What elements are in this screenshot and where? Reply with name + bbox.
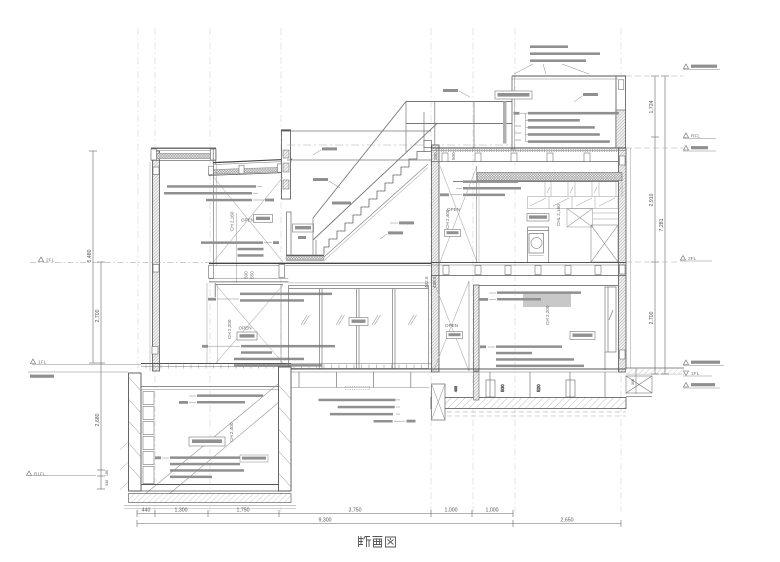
svg-text:438.5: 438.5 — [432, 276, 437, 288]
grid line G3 — [209, 28, 211, 512]
right dim chain outer — [659, 76, 669, 374]
terrace label — [293, 224, 314, 239]
exterior stair label — [332, 202, 351, 205]
right level eave — [626, 146, 716, 152]
west wall top junction — [424, 141, 432, 148]
svg-text:OPEN: OPEN — [445, 323, 458, 328]
foundation posts detail — [454, 380, 575, 397]
left level B1FL — [27, 471, 97, 478]
east wall cladding line — [630, 148, 632, 370]
stair stringer — [324, 164, 428, 257]
wall C label right — [574, 93, 598, 102]
svg-text:B1FL: B1FL — [34, 472, 46, 478]
kitchen label — [527, 204, 561, 226]
2F floor annotation text — [201, 241, 279, 257]
kitchen ceiling insulation — [453, 173, 622, 182]
svg-text:7,281: 7,281 — [659, 218, 665, 231]
svg-text:2,700: 2,700 — [95, 309, 101, 322]
2F stair void cross — [440, 166, 479, 262]
svg-text:1,724: 1,724 — [649, 100, 655, 113]
2F void labels — [445, 207, 461, 237]
terrace parapet wall — [281, 130, 291, 199]
svg-text:440: 440 — [142, 508, 151, 514]
right level design GL — [683, 383, 720, 389]
title zu — [386, 537, 396, 547]
1F floor annotation — [202, 345, 335, 367]
left level 2FL — [30, 257, 213, 264]
grid line G2 — [154, 28, 156, 512]
1F room labels — [227, 319, 257, 340]
bottom dim chain A — [137, 510, 513, 517]
basement shelves — [143, 392, 154, 484]
svg-text:CH 2,400: CH 2,400 — [445, 209, 450, 229]
grid line G6 — [472, 28, 474, 512]
kitchen window mullions — [545, 182, 622, 197]
svg-text:330: 330 — [105, 480, 109, 486]
roof line behind stair — [287, 159, 431, 161]
kitchen counter — [528, 227, 549, 262]
right level max height — [626, 64, 720, 76]
svg-text:9,300: 9,300 — [319, 518, 332, 524]
svg-text:498: 498 — [454, 386, 458, 392]
svg-text:500: 500 — [244, 271, 249, 279]
svg-text:2,700: 2,700 — [649, 311, 655, 324]
left block sloped roof — [209, 159, 293, 175]
svg-text:520: 520 — [536, 384, 541, 392]
roof terrace label — [495, 91, 532, 99]
svg-text:500: 500 — [500, 384, 505, 392]
laundry bracket note — [514, 45, 600, 74]
left dim chain outer — [87, 151, 97, 363]
svg-text:CH 2,160: CH 2,160 — [230, 211, 235, 231]
basement ceiling annotation — [179, 394, 263, 403]
right level 2FL — [626, 256, 712, 263]
bottom dim chain B — [137, 520, 621, 527]
1F room ceiling — [479, 285, 618, 287]
handrail3 label — [443, 89, 470, 97]
hall CH dim — [230, 211, 273, 283]
grid line G8 — [620, 28, 622, 512]
grid line G1 — [138, 28, 621, 512]
kitchen ceiling annotation — [440, 180, 521, 196]
svg-text:500: 500 — [451, 152, 456, 160]
workroom label — [189, 422, 234, 446]
svg-text:CH 2,200: CH 2,200 — [545, 305, 550, 325]
svg-text:150: 150 — [105, 470, 109, 476]
left block flat roof — [151, 148, 216, 160]
1F ceiling annotation — [208, 293, 332, 302]
basement ceiling — [141, 387, 279, 390]
svg-text:3,750: 3,750 — [349, 508, 362, 514]
soil hatch left of basement — [120, 442, 128, 490]
exterior stair treads — [324, 152, 431, 255]
right exterior ground — [626, 368, 684, 374]
right level average ground — [683, 360, 724, 366]
right block east wall — [616, 76, 626, 148]
glass marks — [301, 315, 417, 325]
right level 1FL — [683, 371, 712, 377]
svg-text:OPEN: OPEN — [241, 218, 254, 223]
2FL beam over courtyard — [289, 263, 432, 283]
1F void labels — [445, 323, 463, 339]
svg-text:5,480: 5,480 — [87, 249, 93, 262]
basement floor slab — [124, 485, 296, 509]
svg-text:2,650: 2,650 — [561, 518, 574, 524]
svg-text:CH 2,200: CH 2,200 — [227, 319, 232, 339]
basement diagonal brace — [144, 384, 278, 495]
right block west wall — [432, 145, 440, 372]
kitchen mid cabinet cross — [567, 209, 618, 228]
basement east wall — [279, 367, 292, 491]
foundation slab — [291, 372, 626, 420]
svg-text:1,750: 1,750 — [237, 508, 250, 514]
svg-text:2,910: 2,910 — [649, 193, 655, 206]
left 2F floor band — [209, 263, 289, 282]
1F ceiling shade — [523, 294, 571, 308]
svg-text:1,300: 1,300 — [175, 508, 188, 514]
floor posts — [299, 372, 605, 397]
svg-text:CH 2,400: CH 2,400 — [229, 422, 234, 442]
grid line G4 — [280, 28, 282, 512]
svg-text:OPEN: OPEN — [239, 326, 252, 331]
terrace door jamb — [287, 212, 292, 255]
title men — [373, 537, 383, 548]
RFL dashed level line — [287, 144, 512, 146]
handrail5 label — [390, 221, 414, 224]
svg-text:200: 200 — [433, 152, 438, 160]
svg-text:432.5: 432.5 — [424, 276, 429, 288]
left dim chain inner — [95, 262, 109, 489]
2F ceiling annotation text — [164, 185, 274, 201]
2F floor band right — [424, 263, 626, 289]
1F stair void cross — [434, 281, 470, 371]
svg-text:2,680: 2,680 — [95, 413, 101, 426]
basement floor annotation — [155, 455, 268, 478]
parapet top — [512, 76, 626, 150]
terrace floor — [286, 255, 324, 260]
kids room tall window — [605, 287, 616, 370]
kitchen tall cabinet cross — [591, 225, 618, 262]
1F floor annotation right — [480, 345, 584, 367]
courtyard glazing — [289, 286, 429, 369]
clerestory window — [213, 149, 216, 164]
right dim chain inner — [649, 76, 659, 374]
parapet ladder ticks — [515, 126, 521, 140]
left level 1FL — [28, 359, 141, 378]
left block west wall — [150, 151, 160, 371]
1F room west wall — [474, 285, 480, 371]
stair handrail diagonal — [313, 102, 512, 241]
parapet cap line over hall — [287, 130, 431, 132]
svg-text:CHL 2,160: CHL 2,160 — [556, 204, 561, 226]
svg-text:1,000: 1,000 — [445, 508, 458, 514]
roof deck annotation — [514, 112, 619, 143]
grid line G7 — [514, 28, 516, 512]
kids room label — [545, 305, 595, 339]
grid line G5 — [430, 28, 432, 512]
right small dim 300 — [631, 368, 636, 394]
basement west wall — [129, 373, 142, 491]
courtyard label — [349, 318, 368, 326]
1F ceiling annotation — [479, 291, 581, 300]
handrail posts — [313, 102, 474, 256]
svg-text:300: 300 — [631, 379, 635, 385]
kitchen upper cabinets — [528, 197, 618, 209]
courtyard deck annotation — [319, 399, 416, 423]
handrail1 label — [313, 178, 340, 188]
1F left room void cross — [207, 283, 283, 368]
title dan — [359, 536, 372, 547]
right exterior deck — [626, 376, 652, 397]
wall C label near stair — [313, 147, 337, 155]
svg-text:550: 550 — [250, 271, 255, 279]
ground floor band — [141, 364, 626, 373]
2F hall room void cross — [214, 164, 284, 266]
svg-text:1,000: 1,000 — [486, 508, 499, 514]
handrail gray post — [503, 102, 507, 144]
wall B label — [380, 231, 403, 239]
roof terrace floor band — [431, 148, 626, 162]
right level RFL — [683, 133, 716, 140]
